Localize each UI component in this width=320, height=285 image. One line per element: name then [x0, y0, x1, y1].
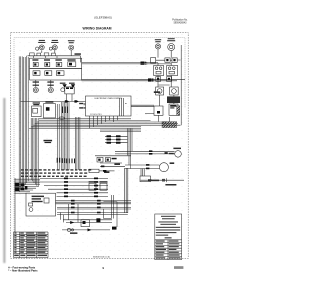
connector on pair upper [141, 62, 145, 64]
junction box [65, 87, 74, 94]
vertical wires mid-low [125, 168, 128, 213]
oven signal light L5 [167, 38, 175, 57]
surface unit C2 [48, 80, 53, 93]
electronic oven control box [86, 96, 132, 116]
left wire bus 1 [19, 56, 28, 192]
indicator light L2 [49, 40, 58, 50]
schematic frame [14, 38, 185, 232]
wire label rows [21, 169, 91, 177]
wires right column [158, 45, 181, 125]
switch bank box B [30, 69, 82, 80]
horizontal bus middle [29, 119, 181, 132]
box B inner contacts [33, 71, 40, 76]
wire to oven lamp [115, 151, 175, 154]
EOC terminal stems [90, 116, 118, 128]
wire pair lower [82, 79, 185, 81]
notes table [155, 240, 182, 260]
wire: top-left lamp rail [28, 50, 81, 62]
date code [174, 266, 183, 269]
svg-text:Publication No.: Publication No. [172, 18, 188, 21]
terminal block dark cluster [15, 183, 28, 191]
switch S2 [170, 87, 179, 95]
page border (dashed) [11, 33, 189, 259]
ground triangle G2 [71, 84, 75, 88]
indicator light L1 [36, 40, 46, 50]
wire label BL [44, 140, 53, 143]
bus corner wires [15, 179, 41, 193]
ground triangle G1 [62, 84, 66, 88]
wire drop cluster [104, 195, 118, 227]
connector pair 2 [74, 100, 78, 102]
svg-text:318047413 rev A: 318047413 rev A [93, 255, 110, 258]
terminal block TB right [151, 58, 156, 63]
right vertical wires [128, 129, 133, 169]
EOC pin labels left [79, 103, 83, 109]
svg-text:1 2 3 4 5 6 7 8 9: 1 2 3 4 5 6 7 8 9 [90, 114, 102, 116]
svg-text:(GLEF398AS): (GLEF398AS) [94, 16, 112, 20]
left wire bus 2 [31, 118, 38, 187]
box lower right [140, 176, 151, 182]
broil element (hatched) [162, 122, 177, 128]
oval label [59, 117, 65, 119]
svg-text:5995436943: 5995436943 [174, 22, 187, 24]
wires from junction box right [56, 201, 132, 215]
oven sensor probe [141, 178, 185, 182]
thermostat T2 [167, 66, 178, 76]
wire with connectors [20, 94, 85, 101]
element (hatched vertical) [177, 106, 180, 116]
center vertical wires [58, 102, 69, 170]
notes text lines [156, 216, 180, 239]
relay box RB1 [89, 183, 96, 190]
scan smudge left margin [3, 98, 5, 263]
fan motor M [159, 163, 168, 172]
lock motor box [169, 104, 178, 115]
latch box [154, 106, 163, 115]
surface unit C1 [33, 80, 38, 93]
EOC inner wires [120, 98, 127, 116]
switch bank box A [30, 58, 82, 68]
junction big box [26, 193, 56, 216]
control box K1 [32, 102, 41, 116]
door lock switch cluster [95, 156, 131, 173]
indicator light L4 [155, 39, 161, 57]
indicator light L3 [68, 40, 81, 55]
small box above [89, 169, 99, 172]
oven lamp [175, 151, 182, 158]
notes box [155, 214, 182, 260]
center vertical wires 2 [75, 117, 80, 170]
relay (solid) [167, 96, 180, 103]
svg-text:ELECTRONIC OVEN CONTROL: ELECTRONIC OVEN CONTROL [95, 98, 123, 100]
connector on pair lower [148, 78, 152, 80]
connector pair 1 [65, 100, 69, 102]
svg-text:* – Non-Illustrated Parts: * – Non-Illustrated Parts [8, 269, 38, 273]
thermostat T1 [154, 66, 164, 76]
connector rows [40, 178, 108, 196]
bottom cluster [61, 213, 113, 230]
hi-limit switch [156, 77, 172, 82]
parts table [14, 232, 48, 258]
wire pair upper [82, 62, 172, 64]
relay box RB2 [100, 183, 107, 190]
wires EOC to right [131, 105, 154, 113]
terminal blocks under lamps [30, 53, 56, 56]
svg-text:WIRING DIAGRAM: WIRING DIAGRAM [83, 26, 112, 30]
terminal P circle [61, 88, 65, 92]
box A inner contacts [33, 62, 38, 66]
connector cluster mid [105, 136, 128, 142]
center vertical wire dark segments [57, 107, 74, 164]
switch S1 [156, 87, 164, 95]
control box K2 [44, 101, 56, 118]
